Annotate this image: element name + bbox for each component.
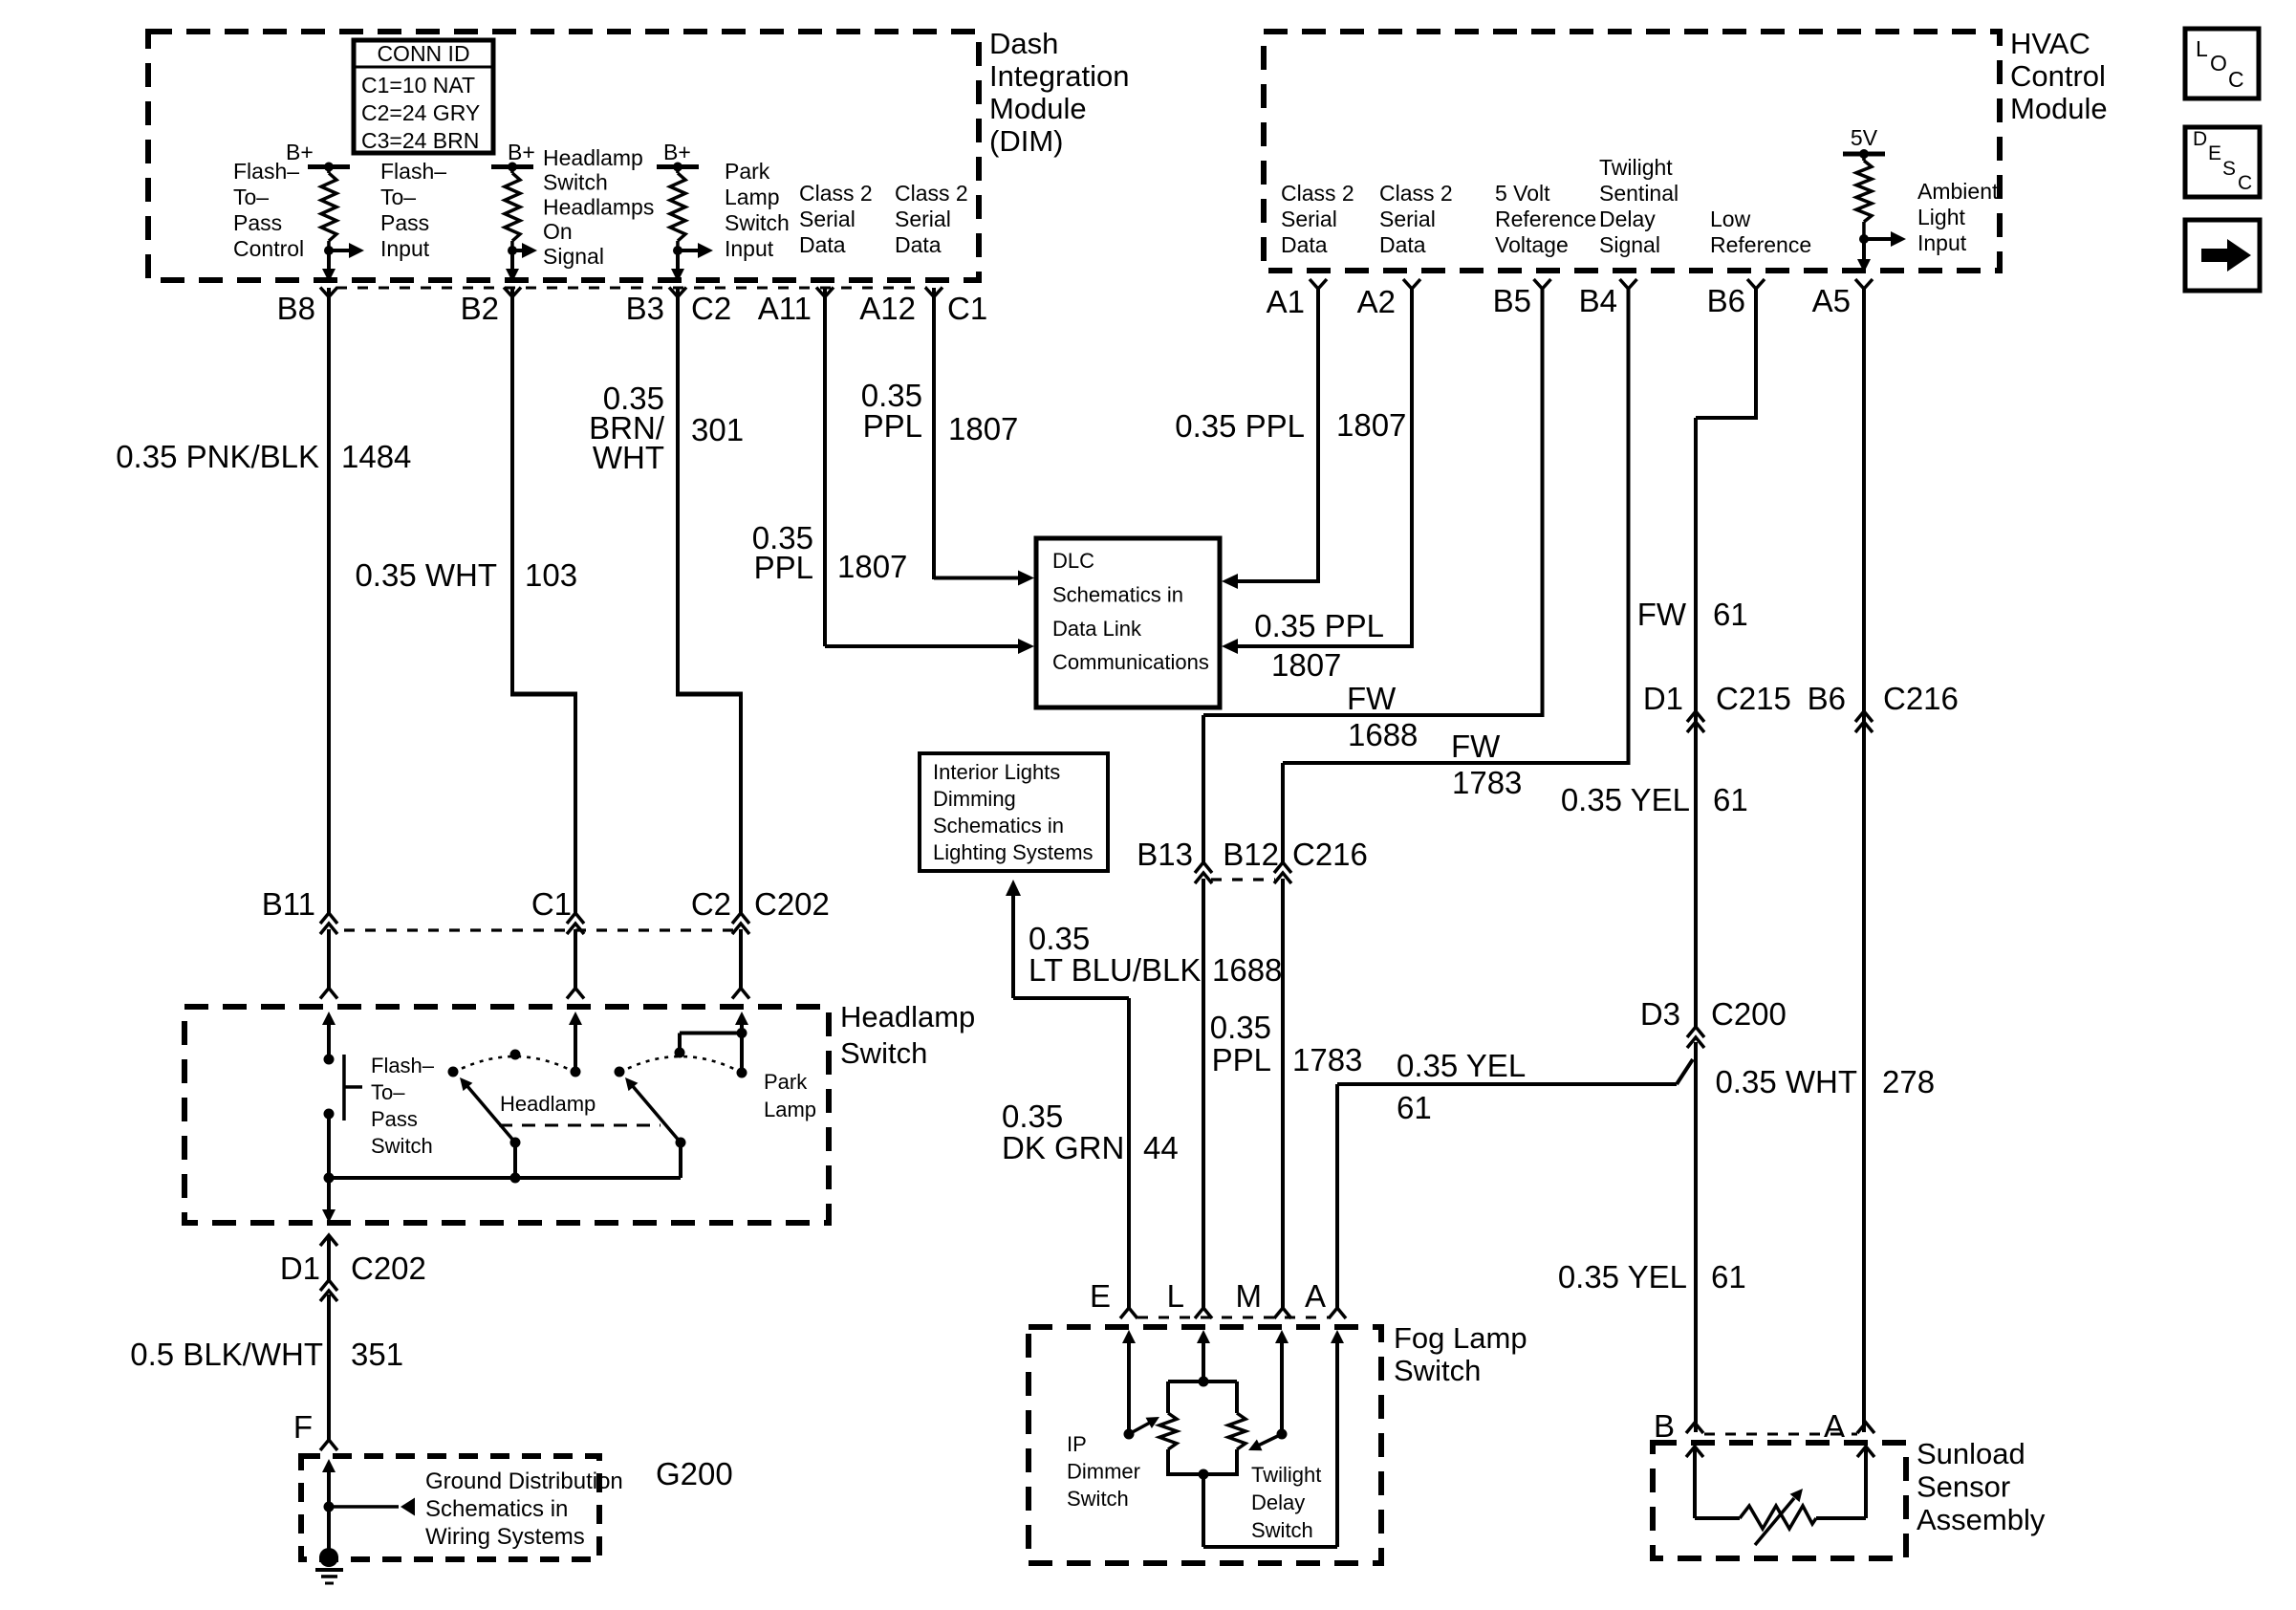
svg-text:Switch: Switch: [543, 170, 608, 195]
svg-text:B11: B11: [262, 886, 315, 922]
svg-text:1783: 1783: [1452, 765, 1522, 800]
svg-text:Lamp: Lamp: [725, 185, 780, 209]
svg-text:1688: 1688: [1348, 717, 1418, 752]
svg-text:0.35: 0.35: [1029, 921, 1090, 956]
svg-text:C2=24 GRY: C2=24 GRY: [361, 100, 480, 125]
svg-text:0.35 WHT: 0.35 WHT: [1715, 1064, 1857, 1099]
svg-text:Dimming: Dimming: [933, 787, 1016, 811]
svg-text:1807: 1807: [948, 411, 1018, 446]
svg-text:Switch: Switch: [1251, 1518, 1313, 1542]
svg-text:0.35: 0.35: [1002, 1099, 1063, 1134]
svg-text:Control: Control: [233, 236, 304, 261]
svg-text:FW: FW: [1451, 729, 1501, 764]
svg-text:Pass: Pass: [380, 210, 429, 235]
svg-text:278: 278: [1882, 1064, 1935, 1099]
svg-text:C2: C2: [691, 886, 731, 922]
svg-text:C: C: [2238, 172, 2252, 194]
svg-text:Switch: Switch: [1067, 1487, 1129, 1511]
svg-text:Light: Light: [1917, 205, 1965, 229]
svg-text:Sunload: Sunload: [1917, 1437, 2025, 1470]
svg-text:Data: Data: [895, 232, 942, 257]
svg-text:Input: Input: [380, 236, 430, 261]
svg-text:103: 103: [525, 557, 577, 593]
svg-text:Headlamp: Headlamp: [543, 145, 643, 170]
svg-text:A1: A1: [1267, 284, 1305, 319]
svg-text:Switch: Switch: [371, 1134, 433, 1158]
svg-text:0.35: 0.35: [1210, 1010, 1271, 1045]
svg-text:Pass: Pass: [371, 1107, 418, 1131]
svg-text:FW: FW: [1347, 681, 1397, 716]
svg-text:Module: Module: [2010, 92, 2108, 125]
svg-text:PPL: PPL: [863, 408, 922, 444]
svg-text:61: 61: [1713, 597, 1748, 632]
svg-text:C202: C202: [754, 886, 830, 922]
svg-text:1807: 1807: [1336, 407, 1406, 443]
svg-text:E: E: [1090, 1278, 1111, 1314]
svg-text:Flash–: Flash–: [380, 159, 446, 184]
svg-text:Serial: Serial: [895, 207, 951, 231]
svg-text:44: 44: [1143, 1130, 1179, 1165]
svg-text:B13: B13: [1137, 837, 1193, 872]
svg-text:Flash–: Flash–: [371, 1054, 435, 1077]
svg-text:Integration: Integration: [989, 59, 1130, 93]
svg-text:0.35 YEL: 0.35 YEL: [1558, 1259, 1687, 1295]
svg-text:D3: D3: [1640, 996, 1680, 1032]
svg-text:5 Volt: 5 Volt: [1495, 181, 1550, 206]
svg-text:(DIM): (DIM): [989, 124, 1063, 158]
svg-text:HVAC: HVAC: [2010, 27, 2090, 60]
svg-text:B+: B+: [663, 140, 691, 164]
svg-text:Assembly: Assembly: [1917, 1503, 2046, 1536]
svg-text:C3=24 BRN: C3=24 BRN: [361, 128, 479, 153]
svg-text:A: A: [1305, 1278, 1326, 1314]
svg-text:S: S: [2222, 158, 2236, 180]
svg-text:0.35 WHT: 0.35 WHT: [355, 557, 497, 593]
svg-text:61: 61: [1397, 1090, 1432, 1125]
svg-text:A11: A11: [758, 291, 812, 326]
svg-text:0.5 BLK/WHT: 0.5 BLK/WHT: [130, 1337, 323, 1372]
svg-text:DK GRN: DK GRN: [1002, 1130, 1124, 1165]
svg-text:Signal: Signal: [543, 244, 604, 269]
svg-text:301: 301: [691, 412, 744, 447]
svg-text:Control: Control: [2010, 59, 2106, 93]
svg-text:Voltage: Voltage: [1495, 232, 1569, 257]
svg-text:To–: To–: [371, 1080, 405, 1104]
svg-text:61: 61: [1713, 782, 1748, 817]
svg-text:To–: To–: [380, 185, 416, 209]
svg-text:B: B: [1654, 1408, 1675, 1444]
svg-text:B3: B3: [626, 291, 664, 326]
svg-text:Schematics in: Schematics in: [425, 1496, 568, 1522]
svg-text:To–: To–: [233, 185, 269, 209]
svg-text:1807: 1807: [837, 549, 907, 584]
svg-text:G200: G200: [656, 1456, 733, 1491]
svg-text:Data: Data: [1379, 232, 1426, 257]
svg-text:Delay: Delay: [1251, 1490, 1305, 1514]
svg-text:Flash–: Flash–: [233, 159, 299, 184]
svg-text:C2: C2: [691, 291, 731, 326]
svg-text:61: 61: [1711, 1259, 1746, 1295]
svg-text:M: M: [1236, 1278, 1263, 1314]
svg-text:Delay: Delay: [1599, 207, 1656, 231]
svg-text:D: D: [2193, 128, 2207, 150]
svg-text:L: L: [2196, 36, 2208, 61]
svg-text:0.35 PPL: 0.35 PPL: [1254, 608, 1384, 643]
svg-text:LT BLU/BLK: LT BLU/BLK: [1029, 952, 1201, 988]
svg-text:A5: A5: [1812, 283, 1851, 318]
svg-text:0.35 PNK/BLK: 0.35 PNK/BLK: [116, 439, 319, 474]
svg-text:Reference: Reference: [1710, 232, 1811, 257]
svg-text:B2: B2: [461, 291, 499, 326]
svg-text:351: 351: [351, 1337, 403, 1372]
svg-text:C216: C216: [1292, 837, 1368, 872]
svg-text:IP: IP: [1067, 1432, 1087, 1456]
svg-text:Schematics in: Schematics in: [1052, 582, 1183, 606]
svg-text:Serial: Serial: [799, 207, 856, 231]
svg-text:B4: B4: [1579, 283, 1617, 318]
svg-text:DLC: DLC: [1052, 549, 1094, 573]
svg-text:Class 2: Class 2: [895, 181, 968, 206]
svg-text:Dash: Dash: [989, 27, 1058, 60]
svg-text:Twilight: Twilight: [1599, 155, 1673, 180]
svg-text:Park: Park: [764, 1070, 808, 1094]
svg-text:L: L: [1167, 1278, 1184, 1314]
svg-text:Switch: Switch: [840, 1036, 927, 1070]
svg-text:E: E: [2208, 142, 2221, 164]
svg-text:0.35 YEL: 0.35 YEL: [1561, 782, 1690, 817]
svg-text:Headlamp: Headlamp: [840, 1000, 975, 1033]
svg-text:1484: 1484: [341, 439, 411, 474]
svg-text:C215: C215: [1716, 681, 1791, 716]
svg-text:1807: 1807: [1271, 647, 1341, 683]
svg-text:PPL: PPL: [754, 550, 813, 585]
svg-text:1783: 1783: [1292, 1042, 1362, 1077]
svg-text:Reference: Reference: [1495, 207, 1596, 231]
svg-text:0.35 PPL: 0.35 PPL: [1175, 408, 1305, 444]
svg-text:Communications: Communications: [1052, 650, 1209, 674]
svg-text:A: A: [1824, 1408, 1845, 1444]
svg-text:Signal: Signal: [1599, 232, 1660, 257]
svg-text:Fog Lamp: Fog Lamp: [1394, 1321, 1527, 1355]
svg-text:Module: Module: [989, 92, 1087, 125]
svg-text:B6: B6: [1707, 283, 1745, 318]
svg-text:Pass: Pass: [233, 210, 282, 235]
svg-text:Class 2: Class 2: [1379, 181, 1453, 206]
svg-text:FW: FW: [1637, 597, 1687, 632]
svg-text:D1: D1: [1643, 681, 1683, 716]
svg-text:Headlamp: Headlamp: [500, 1092, 596, 1116]
svg-text:Lighting Systems: Lighting Systems: [933, 840, 1094, 864]
svg-text:CONN ID: CONN ID: [377, 41, 469, 66]
svg-text:C1=10 NAT: C1=10 NAT: [361, 73, 475, 98]
svg-text:Sentinal: Sentinal: [1599, 181, 1679, 206]
svg-text:C: C: [2228, 67, 2244, 92]
svg-text:B8: B8: [277, 291, 315, 326]
svg-text:Data: Data: [1281, 232, 1328, 257]
svg-text:C202: C202: [351, 1251, 426, 1286]
svg-text:O: O: [2210, 51, 2227, 76]
svg-text:A12: A12: [859, 291, 916, 326]
svg-text:Data Link: Data Link: [1052, 617, 1142, 641]
svg-text:Twilight: Twilight: [1251, 1463, 1321, 1487]
svg-text:Dimmer: Dimmer: [1067, 1460, 1140, 1484]
svg-text:Ground Distribution: Ground Distribution: [425, 1469, 623, 1494]
svg-text:B6: B6: [1808, 681, 1846, 716]
svg-text:B+: B+: [508, 140, 535, 164]
svg-text:C1: C1: [947, 291, 987, 326]
svg-text:Serial: Serial: [1379, 207, 1436, 231]
svg-text:C216: C216: [1883, 681, 1959, 716]
svg-text:Class 2: Class 2: [1281, 181, 1354, 206]
svg-text:Park: Park: [725, 159, 770, 184]
svg-text:On: On: [543, 219, 573, 244]
svg-text:Low: Low: [1710, 207, 1751, 231]
svg-text:Input: Input: [725, 236, 774, 261]
svg-text:F: F: [293, 1409, 313, 1445]
svg-text:C1: C1: [531, 886, 572, 922]
svg-text:Headlamps: Headlamps: [543, 194, 654, 219]
svg-text:Interior Lights: Interior Lights: [933, 760, 1060, 784]
svg-text:B12: B12: [1223, 837, 1279, 872]
svg-text:WHT: WHT: [593, 440, 664, 475]
svg-text:Input: Input: [1917, 230, 1967, 255]
svg-text:Ambient: Ambient: [1917, 179, 1999, 204]
svg-text:Schematics in: Schematics in: [933, 814, 1064, 838]
svg-text:Sensor: Sensor: [1917, 1470, 2010, 1504]
svg-text:Serial: Serial: [1281, 207, 1337, 231]
svg-text:Lamp: Lamp: [764, 1098, 816, 1121]
svg-text:B5: B5: [1493, 283, 1531, 318]
svg-text:Data: Data: [799, 232, 846, 257]
svg-text:A2: A2: [1357, 284, 1396, 319]
svg-text:0.35 YEL: 0.35 YEL: [1397, 1048, 1526, 1083]
svg-text:5V: 5V: [1851, 125, 1878, 150]
svg-text:PPL: PPL: [1212, 1042, 1271, 1077]
svg-text:Wiring Systems: Wiring Systems: [425, 1524, 585, 1550]
svg-text:C200: C200: [1711, 996, 1787, 1032]
svg-text:Switch: Switch: [1394, 1354, 1481, 1387]
svg-text:Class 2: Class 2: [799, 181, 873, 206]
svg-text:Switch: Switch: [725, 210, 790, 235]
svg-text:1688: 1688: [1212, 952, 1282, 988]
svg-text:D1: D1: [280, 1251, 320, 1286]
